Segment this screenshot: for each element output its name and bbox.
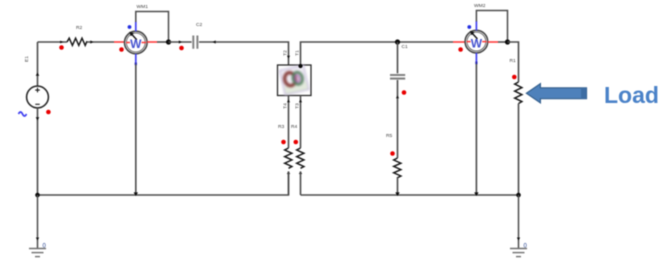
transformer U1 photo	[279, 65, 308, 95]
node junction WM2-loop	[505, 39, 510, 44]
capacitor C1	[390, 75, 405, 79]
transformer U1 box	[278, 65, 312, 96]
capacitor C2	[193, 36, 197, 49]
node junction C1 top	[395, 39, 400, 44]
pin arrow C2 left	[179, 40, 182, 43]
wire junction to C2	[169, 41, 192, 43]
wire WM1 voltage loop	[136, 12, 169, 43]
red pin wire WM2 left	[453, 41, 465, 43]
pin arrow R3 bottom	[287, 171, 290, 174]
resistor R5	[394, 158, 401, 178]
svg-text:R3: R3	[278, 124, 285, 130]
wire top-left horizontal from corner to R2	[38, 41, 68, 43]
svg-text:R2: R2	[76, 25, 83, 31]
pin arrow E1 top	[36, 73, 40, 76]
wire WM1 bottom vertical	[135, 65, 137, 196]
blue pin WM1 top	[135, 22, 137, 32]
svg-text:Load: Load	[604, 82, 659, 108]
probe red dot R5	[390, 151, 395, 156]
resistor R1	[515, 82, 522, 104]
op-amp wattmeter WM2	[465, 30, 488, 53]
wire E1 top vertical	[37, 42, 39, 87]
resistor R3	[285, 148, 292, 168]
probe blue dot above WM2	[467, 25, 471, 29]
red pin WM2 right	[488, 41, 498, 43]
wire right ground stem	[518, 195, 520, 249]
wire R4 bottom to right bottom net	[300, 172, 302, 196]
svg-text:T3: T3	[295, 103, 301, 109]
probe red dot R3	[281, 140, 286, 145]
pin arrow R2 right	[90, 40, 93, 43]
svg-text:T2: T2	[283, 50, 289, 56]
pin arrow C1 bottom	[396, 96, 399, 99]
pin arrow C2 right	[213, 40, 216, 43]
resistor R2	[67, 38, 87, 45]
wire C1 branch upper	[397, 42, 399, 73]
probe blue dot above WM1	[128, 25, 132, 29]
node junction R1-ground	[516, 193, 521, 198]
node junction WM1 bottom	[134, 192, 138, 196]
wire R1 bottom vertical	[518, 104, 520, 196]
wire T4 pin down from box	[288, 96, 290, 149]
wire R2 to WM1	[87, 41, 114, 43]
AC sine mark	[19, 112, 27, 116]
node dot T1 at box	[298, 64, 302, 68]
probe red dot left of WM1	[119, 47, 124, 52]
probe red dot WM2 left	[458, 47, 463, 52]
wire E1 bottom vertical	[37, 108, 39, 195]
pin arrow R4 bottom	[299, 171, 302, 174]
pin arrow right ground	[517, 238, 520, 241]
pin arrow T2	[287, 56, 290, 59]
wire T3 pin down from box	[300, 96, 302, 149]
probe red dot C1	[402, 90, 407, 95]
probe red dot R4	[294, 140, 299, 145]
svg-text:WM2: WM2	[474, 3, 486, 9]
ground right	[510, 249, 527, 257]
svg-text:T4: T4	[283, 103, 289, 109]
load arrow	[526, 84, 586, 103]
wire junction to R1 corner	[508, 42, 519, 82]
svg-text:T1: T1	[295, 50, 301, 56]
svg-text:R5: R5	[386, 133, 393, 139]
svg-text:W: W	[471, 36, 483, 50]
svg-text:C2: C2	[196, 22, 203, 28]
node junction R5 bottom	[395, 192, 399, 196]
wire WM1 right to junction	[157, 41, 169, 43]
blue pin WM2 bottom	[475, 53, 477, 64]
red pin wire WM1 left	[114, 41, 125, 43]
wire WM2 bottom vertical	[475, 64, 477, 195]
svg-text:W: W	[130, 37, 142, 51]
pin arrow T3	[299, 100, 302, 103]
pin arrow R2 left	[60, 41, 63, 44]
resistor R4	[297, 148, 304, 168]
probe red dot below E1	[46, 110, 51, 115]
svg-text:R4: R4	[291, 124, 298, 130]
wire bottom-left net	[38, 172, 289, 196]
voltage source E1	[27, 86, 49, 108]
wire bottom-right net	[301, 194, 519, 196]
pin arrow T4	[287, 100, 290, 103]
svg-text:C1: C1	[402, 44, 409, 50]
probe red dot left of R2	[59, 45, 64, 50]
wire WM2 right to junction	[498, 41, 508, 43]
blue pin WM2 top	[475, 21, 477, 30]
svg-text:E1: E1	[24, 56, 30, 62]
wire left ground stem	[37, 195, 39, 249]
node junction E1-ground	[35, 193, 40, 198]
ground left	[29, 249, 46, 257]
probe red dot before C2	[179, 46, 184, 51]
wire C1 to R5	[397, 80, 399, 158]
probe red dot R1	[512, 75, 517, 80]
red pin WM1 right	[147, 41, 157, 43]
svg-text:R1: R1	[510, 58, 517, 64]
blue pin WM1 bottom	[135, 54, 137, 65]
node junction WM1-loop	[166, 39, 171, 44]
wire WM2 voltage loop	[476, 11, 507, 43]
pin arrow left ground	[36, 238, 39, 241]
load arrow end shade	[581, 88, 587, 99]
wire R3 bottom to left bottom net	[288, 172, 290, 196]
pin arrow E1 bottom	[36, 117, 40, 120]
op-amp wattmeter WM1	[125, 31, 148, 54]
svg-text:WM1: WM1	[137, 4, 149, 10]
wire C2 to T2 pin with corner down	[199, 42, 289, 65]
node junction WM2 bottom	[474, 192, 478, 196]
wire T1 pin up and long top wire to WM2	[301, 42, 454, 65]
wire R5 bottom	[397, 177, 399, 195]
